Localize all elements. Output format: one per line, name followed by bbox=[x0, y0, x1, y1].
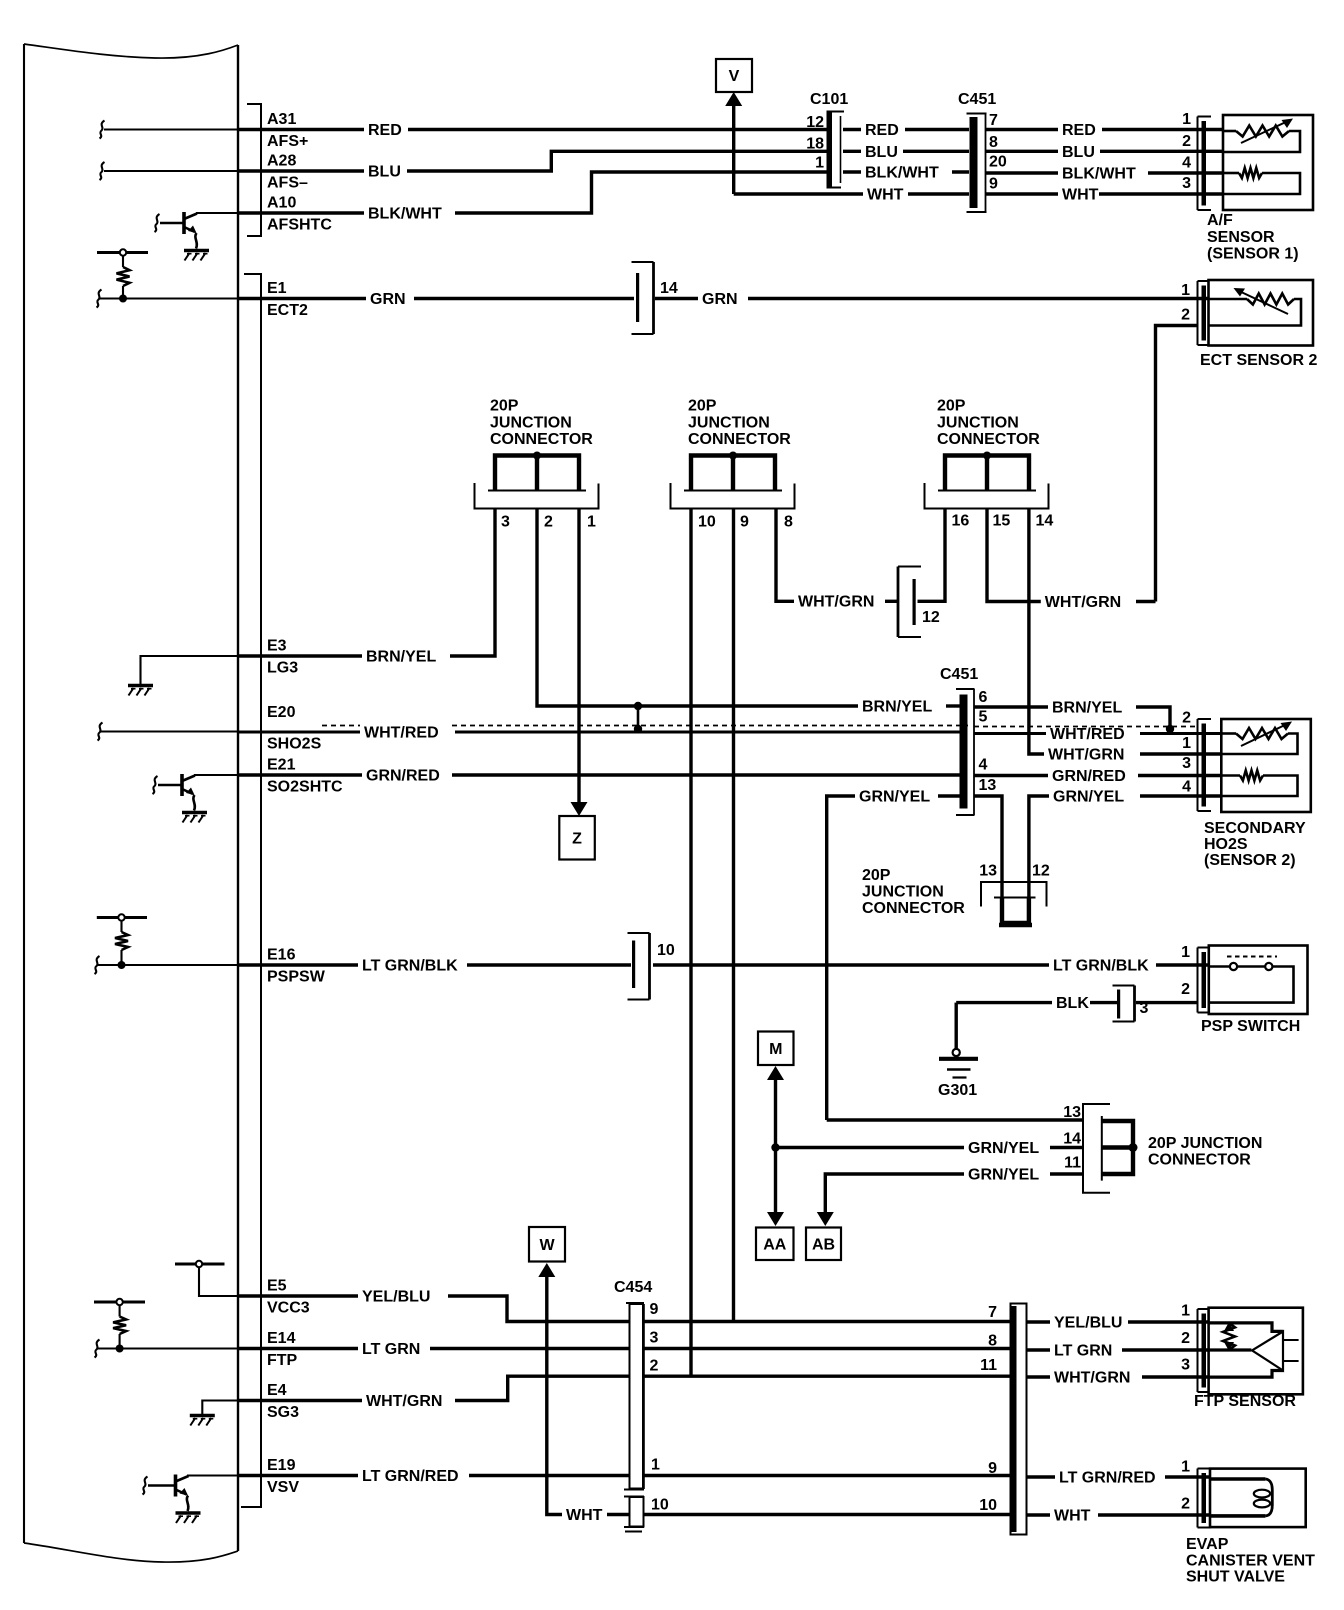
svg-text:2: 2 bbox=[1182, 710, 1191, 727]
svg-text:20P: 20P bbox=[937, 398, 966, 415]
svg-text:13: 13 bbox=[979, 863, 997, 880]
PSP switch contacts bbox=[1227, 956, 1277, 958]
svg-text:E3: E3 bbox=[267, 638, 287, 655]
connector 12 inline bbox=[897, 567, 900, 638]
wire W down to WHT row bbox=[547, 1275, 562, 1515]
svg-text:EVAP: EVAP bbox=[1186, 1536, 1229, 1553]
svg-text:C454: C454 bbox=[614, 1279, 652, 1296]
svg-text:E20: E20 bbox=[267, 704, 296, 721]
transistor Q1 (AFSHTC driver) bbox=[155, 214, 160, 232]
wire A31 internal bbox=[104, 128, 238, 130]
FTP internal rails and resistor bbox=[1209, 1323, 1283, 1332]
A/F sensor box bbox=[1223, 115, 1313, 210]
connector bracket ECT sensor 2 bbox=[1197, 281, 1199, 345]
wire A28 BLU with jog up to C101 pin 18 bbox=[239, 169, 365, 172]
svg-text:SHO2S: SHO2S bbox=[267, 736, 322, 753]
svg-text:BRN/YEL: BRN/YEL bbox=[862, 699, 932, 716]
svg-text:ECT2: ECT2 bbox=[267, 302, 308, 319]
svg-text:8: 8 bbox=[784, 514, 793, 531]
20P junction connector inverted bus bbox=[1002, 898, 1029, 924]
wire E19 LT GRN/RED bbox=[239, 1474, 359, 1477]
wire E3 BRN/YEL up to JC1 pin 3 bbox=[239, 654, 363, 657]
20P junction connector JC3 bbox=[945, 456, 1029, 490]
wire down to G301 bbox=[955, 1003, 958, 1049]
svg-text:2: 2 bbox=[1181, 981, 1190, 998]
FTP sensor box bbox=[1209, 1308, 1303, 1395]
ground wire E3 internal bbox=[141, 656, 239, 684]
wire LT GRN/BLK to PSP switch pin 1 bbox=[653, 963, 1049, 966]
svg-text:15: 15 bbox=[993, 513, 1011, 530]
svg-text:8: 8 bbox=[989, 134, 998, 151]
node AA reference box bbox=[756, 1228, 794, 1261]
svg-text:E14: E14 bbox=[267, 1330, 296, 1347]
svg-text:E4: E4 bbox=[267, 1382, 287, 1399]
connector bracket EVAP bbox=[1197, 1469, 1199, 1528]
svg-text:4: 4 bbox=[1182, 779, 1191, 796]
shield dashed line bbox=[452, 725, 968, 727]
svg-text:20P: 20P bbox=[862, 867, 891, 884]
svg-text:SHUT VALVE: SHUT VALVE bbox=[1186, 1569, 1285, 1586]
svg-text:M: M bbox=[769, 1041, 782, 1058]
svg-text:VSV: VSV bbox=[267, 1479, 299, 1496]
svg-text:SO2SHTC: SO2SHTC bbox=[267, 779, 343, 796]
svg-text:WHT/RED: WHT/RED bbox=[364, 725, 439, 742]
EVAP solenoid coil bbox=[1210, 1477, 1265, 1481]
svg-text:12: 12 bbox=[1032, 863, 1050, 880]
wire WHT row to C451 pin 9 bbox=[734, 192, 863, 195]
svg-text:GRN/YEL: GRN/YEL bbox=[968, 1140, 1039, 1157]
svg-text:RED: RED bbox=[368, 122, 402, 139]
junction dot E14 bbox=[116, 1345, 124, 1353]
svg-text:WHT/GRN: WHT/GRN bbox=[366, 1393, 442, 1410]
wire E5 YEL/BLU with jog down bbox=[239, 1294, 359, 1297]
svg-text:WHT/GRN: WHT/GRN bbox=[798, 594, 874, 611]
wire RED C101-C451 bbox=[843, 128, 861, 131]
svg-text:BLK/WHT: BLK/WHT bbox=[865, 165, 939, 182]
svg-text:JUNCTION: JUNCTION bbox=[688, 415, 770, 432]
svg-text:WHT/GRN: WHT/GRN bbox=[1045, 594, 1121, 611]
wire PSP pin 2 BLK bbox=[1136, 1001, 1198, 1004]
svg-text:BLK/WHT: BLK/WHT bbox=[1062, 166, 1136, 183]
svg-text:1: 1 bbox=[1181, 944, 1190, 961]
svg-text:14: 14 bbox=[660, 280, 678, 297]
wire A10 BLK/WHT with jog up to C101 pin 1 bbox=[239, 211, 365, 214]
wire LT GRN/RED row through C454 pin 1 bbox=[644, 1474, 1011, 1477]
svg-text:4: 4 bbox=[1182, 155, 1191, 172]
wire connector 12 to JC3 pin 16 bbox=[918, 509, 946, 602]
svg-text:1: 1 bbox=[1181, 1459, 1190, 1476]
svg-text:5: 5 bbox=[979, 709, 988, 726]
junction dot bbox=[634, 702, 642, 710]
svg-text:20P: 20P bbox=[688, 398, 717, 415]
svg-text:2: 2 bbox=[544, 514, 553, 531]
svg-text:20P: 20P bbox=[490, 398, 519, 415]
shield dashed segment bbox=[322, 725, 360, 727]
svg-text:BLK: BLK bbox=[1056, 995, 1089, 1012]
svg-text:AFSHTC: AFSHTC bbox=[267, 217, 332, 234]
wire WHT/GRN from JC3 pin 14 to HO2S pin 1 bbox=[1029, 509, 1044, 755]
wire ECT pin 2 down to WHT/GRN row bbox=[1156, 326, 1199, 602]
svg-text:SENSOR: SENSOR bbox=[1207, 229, 1275, 246]
wire E1 GRN bbox=[239, 297, 367, 300]
ECM/PCM block left border bbox=[23, 44, 25, 1543]
transistor Q2 (SO2SHTC driver) bbox=[153, 776, 158, 794]
ground symbol E4 bbox=[190, 1414, 215, 1418]
wire M to AA bbox=[774, 1078, 777, 1214]
connector bracket PSP switch bbox=[1197, 948, 1199, 1013]
20P junction connector JC1 bbox=[495, 456, 579, 490]
right 20P junction connector housing bbox=[1083, 1104, 1110, 1193]
wire WHT/GRN row through C454 pin 2 bbox=[644, 1374, 1011, 1377]
arrow down into AA bbox=[767, 1212, 784, 1226]
svg-text:1: 1 bbox=[651, 1457, 660, 1474]
svg-text:GRN/RED: GRN/RED bbox=[1052, 768, 1126, 785]
svg-text:JUNCTION: JUNCTION bbox=[937, 415, 1019, 432]
svg-text:YEL/BLU: YEL/BLU bbox=[1054, 1315, 1122, 1332]
svg-text:16: 16 bbox=[952, 513, 970, 530]
node V reference box bbox=[716, 59, 752, 92]
svg-text:RED: RED bbox=[1062, 122, 1096, 139]
ECT sensor 2 box bbox=[1209, 280, 1314, 346]
PSP switch box bbox=[1209, 946, 1308, 1015]
wire E4 WHT/GRN with jog up bbox=[239, 1399, 363, 1402]
arrow up into W bbox=[538, 1263, 555, 1277]
svg-text:BLU: BLU bbox=[865, 144, 898, 161]
connector C454 pin 10 piece bbox=[630, 1497, 644, 1527]
connector bracket A-pin group bbox=[247, 104, 261, 236]
svg-text:FTP SENSOR: FTP SENSOR bbox=[1194, 1393, 1296, 1410]
svg-text:WHT/RED: WHT/RED bbox=[1050, 726, 1125, 743]
ground wire E4 internal bbox=[202, 1401, 238, 1415]
connector 14 inline bbox=[652, 262, 655, 334]
wire Q1 collector to pin A10 bbox=[196, 212, 238, 214]
svg-text:CONNECTOR: CONNECTOR bbox=[937, 431, 1040, 448]
wire GRN/YEL from C451 pin 13 to left and down bbox=[938, 794, 961, 797]
wire BLU C101-C451 bbox=[843, 150, 861, 153]
svg-text:3: 3 bbox=[650, 1330, 659, 1347]
svg-text:WHT/GRN: WHT/GRN bbox=[1054, 1370, 1130, 1387]
svg-text:W: W bbox=[539, 1237, 555, 1254]
wire E16 LT GRN/BLK bbox=[239, 963, 359, 966]
junction dot bbox=[634, 725, 642, 733]
connector 10 inline bbox=[648, 933, 651, 1000]
svg-text:A10: A10 bbox=[267, 195, 296, 212]
svg-text:WHT: WHT bbox=[1054, 1508, 1091, 1525]
ground G301 bbox=[953, 1049, 960, 1056]
svg-text:AB: AB bbox=[812, 1236, 835, 1253]
wire GRN/YEL right of C451 to 20P JC pin 13 bbox=[974, 796, 1002, 897]
20P junction connector inverted housing bbox=[981, 882, 1047, 907]
svg-text:AFS+: AFS+ bbox=[267, 133, 308, 150]
svg-text:1: 1 bbox=[1181, 1303, 1190, 1320]
svg-text:JUNCTION: JUNCTION bbox=[490, 415, 572, 432]
svg-text:LT GRN/RED: LT GRN/RED bbox=[1059, 1470, 1156, 1487]
wire RED to A/F pin 1 bbox=[986, 128, 1058, 131]
wire WHT to EVAP pin 2 bbox=[1027, 1513, 1051, 1516]
svg-text:20P JUNCTION: 20P JUNCTION bbox=[1148, 1135, 1262, 1152]
connector 3 inline bbox=[1133, 986, 1136, 1022]
svg-text:11: 11 bbox=[1064, 1155, 1081, 1172]
svg-text:1: 1 bbox=[1181, 282, 1190, 299]
wire BLU to A/F pin 2 bbox=[986, 150, 1058, 153]
svg-text:9: 9 bbox=[989, 176, 998, 193]
svg-text:E1: E1 bbox=[267, 280, 287, 297]
svg-text:6: 6 bbox=[979, 689, 988, 706]
wire WHT/GRN to FTP pin 3 bbox=[1027, 1375, 1051, 1378]
svg-text:12: 12 bbox=[922, 609, 940, 626]
svg-text:G301: G301 bbox=[938, 1082, 977, 1099]
wire JC1 pin 1 down to Z bbox=[577, 509, 580, 803]
svg-text:LT GRN/RED: LT GRN/RED bbox=[362, 1468, 459, 1485]
wire WHT/RED to HO2S pin 2 bbox=[974, 732, 1046, 735]
svg-text:7: 7 bbox=[989, 112, 998, 129]
svg-text:3: 3 bbox=[1182, 175, 1191, 192]
connector bracket E-pin group bbox=[241, 274, 261, 1507]
svg-text:SG3: SG3 bbox=[267, 1404, 299, 1421]
svg-text:1: 1 bbox=[1182, 111, 1191, 128]
ECM/PCM block torn top edge bbox=[24, 44, 238, 58]
svg-text:14: 14 bbox=[1036, 513, 1054, 530]
svg-text:BLK/WHT: BLK/WHT bbox=[368, 206, 442, 223]
svg-text:CONNECTOR: CONNECTOR bbox=[862, 900, 965, 917]
wire E20 WHT/RED bbox=[239, 731, 361, 734]
svg-text:(SENSOR 1): (SENSOR 1) bbox=[1207, 246, 1299, 263]
junction dot E16 bbox=[118, 961, 126, 969]
svg-text:CONNECTOR: CONNECTOR bbox=[1148, 1152, 1251, 1169]
node AB reference box bbox=[806, 1228, 841, 1261]
connector bracket A/F sensor bbox=[1197, 117, 1199, 211]
wire BLK/WHT to A/F pin 4 bbox=[986, 171, 1058, 174]
svg-text:3: 3 bbox=[1140, 1000, 1149, 1017]
wire Q3 collector to pin E19 bbox=[187, 1474, 238, 1476]
svg-text:CANISTER VENT: CANISTER VENT bbox=[1186, 1553, 1315, 1570]
svg-text:2: 2 bbox=[1182, 133, 1191, 150]
svg-text:ECT SENSOR 2: ECT SENSOR 2 bbox=[1200, 352, 1317, 369]
svg-text:13: 13 bbox=[1063, 1104, 1081, 1121]
ECM/PCM block right border bbox=[237, 45, 239, 1551]
node W reference box bbox=[529, 1227, 565, 1262]
wire JC2 pin 8 to WHT/GRN + connector 12 bbox=[776, 509, 794, 602]
svg-text:2: 2 bbox=[650, 1358, 659, 1375]
svg-text:YEL/BLU: YEL/BLU bbox=[362, 1289, 430, 1306]
svg-text:10: 10 bbox=[651, 1497, 669, 1514]
wire E14 internal bbox=[97, 1347, 238, 1349]
svg-text:CONNECTOR: CONNECTOR bbox=[688, 431, 791, 448]
svg-text:20: 20 bbox=[989, 154, 1007, 171]
svg-text:LT GRN: LT GRN bbox=[1054, 1343, 1112, 1360]
node stub on E5 bbox=[175, 1263, 225, 1266]
wire GRN/YEL to HO2S pin 4 with drop to 20P JC pin 12 bbox=[1029, 796, 1049, 897]
A/F sensing element resistor bbox=[1223, 172, 1239, 175]
svg-text:AFS–: AFS– bbox=[267, 175, 308, 192]
connector bracket HO2S bbox=[1197, 719, 1199, 811]
wire BLK/WHT C101-C451 bbox=[843, 170, 861, 173]
ECM/PCM block torn bottom edge bbox=[24, 1543, 238, 1562]
svg-text:GRN: GRN bbox=[702, 291, 738, 308]
wire GRN/RED to HO2S pin 3 bbox=[974, 774, 1048, 777]
svg-text:BRN/YEL: BRN/YEL bbox=[366, 649, 436, 666]
svg-text:A28: A28 bbox=[267, 153, 296, 170]
wire LT GRN row through C454 pin 3 bbox=[644, 1347, 1011, 1350]
svg-text:WHT: WHT bbox=[1062, 187, 1099, 204]
svg-text:C451: C451 bbox=[940, 666, 978, 683]
arrow down into AB bbox=[817, 1212, 834, 1226]
wire LT GRN to FTP pin 2 bbox=[1027, 1348, 1051, 1351]
A/F heater element (variable resistor) bbox=[1223, 130, 1236, 133]
wire E14 LT GRN bbox=[239, 1347, 359, 1350]
svg-text:E5: E5 bbox=[267, 1278, 287, 1295]
junction dot shield-BRN/YEL bbox=[1166, 725, 1174, 733]
wire GRN/YEL to 20P JC pin 14 bbox=[776, 1146, 965, 1149]
svg-text:JUNCTION: JUNCTION bbox=[862, 884, 944, 901]
svg-text:LT GRN/BLK: LT GRN/BLK bbox=[362, 958, 458, 975]
svg-text:9: 9 bbox=[650, 1301, 659, 1318]
shield dashed line right of C451 bbox=[974, 726, 1196, 728]
resistor pull-up on E16 bbox=[97, 916, 147, 919]
svg-text:3: 3 bbox=[501, 514, 510, 531]
svg-text:9: 9 bbox=[740, 514, 749, 531]
wire E16 internal bbox=[97, 964, 238, 966]
resistor pull-up on E14 bbox=[94, 1301, 145, 1304]
svg-text:GRN/YEL: GRN/YEL bbox=[1053, 789, 1124, 806]
svg-text:E21: E21 bbox=[267, 757, 296, 774]
svg-text:RED: RED bbox=[865, 122, 899, 139]
svg-text:V: V bbox=[729, 68, 740, 85]
svg-text:PSPSW: PSPSW bbox=[267, 969, 326, 986]
svg-text:12: 12 bbox=[806, 114, 824, 131]
svg-text:10: 10 bbox=[979, 1497, 997, 1514]
svg-text:BLU: BLU bbox=[1062, 144, 1095, 161]
wire WHT to A/F pin 3 bbox=[986, 192, 1058, 195]
connector bracket FTP bbox=[1197, 1309, 1199, 1392]
svg-text:Z: Z bbox=[572, 830, 582, 847]
wire E21 GRN/RED bbox=[239, 773, 363, 776]
20P junction connector JC2 bbox=[691, 456, 775, 490]
svg-text:C451: C451 bbox=[958, 91, 996, 108]
arrow up into M bbox=[767, 1066, 784, 1080]
svg-text:WHT: WHT bbox=[566, 1507, 603, 1524]
svg-text:HO2S: HO2S bbox=[1204, 836, 1248, 853]
right 20P junction connector bus bbox=[1102, 1121, 1133, 1174]
svg-text:1: 1 bbox=[1182, 735, 1191, 752]
svg-text:8: 8 bbox=[988, 1333, 997, 1350]
svg-text:E19: E19 bbox=[267, 1457, 296, 1474]
FTP amplifier triangle bbox=[1252, 1332, 1283, 1371]
svg-text:A/F: A/F bbox=[1207, 212, 1233, 229]
svg-text:1: 1 bbox=[587, 514, 596, 531]
ground symbol E3 bbox=[128, 684, 153, 688]
svg-text:FTP: FTP bbox=[267, 1352, 298, 1369]
svg-text:SECONDARY: SECONDARY bbox=[1204, 820, 1306, 837]
wire GRN stub after connector 14 bbox=[655, 297, 698, 300]
svg-text:3: 3 bbox=[1181, 1357, 1190, 1374]
junction dot GRN/YEL branch bbox=[771, 1143, 779, 1151]
wire to 20P JC pin 13 bbox=[827, 1118, 1083, 1121]
wire JC1 pin 2 down and right (BRN/YEL) bbox=[537, 509, 858, 707]
svg-text:LG3: LG3 bbox=[267, 660, 298, 677]
right column connector bar bbox=[1011, 1304, 1027, 1535]
svg-text:GRN/YEL: GRN/YEL bbox=[859, 789, 930, 806]
svg-text:GRN/RED: GRN/RED bbox=[366, 768, 440, 785]
HO2S sensing resistor bbox=[1221, 774, 1240, 777]
svg-text:11: 11 bbox=[980, 1357, 997, 1374]
wire GRN/YEL to 20P JC pin 11 and AB bbox=[825, 1174, 964, 1214]
svg-text:E16: E16 bbox=[267, 947, 296, 964]
HO2S heater element (variable resistor) bbox=[1221, 732, 1236, 735]
svg-text:10: 10 bbox=[657, 942, 675, 959]
wire JC3 pin 15 to ECT pin 2 (WHT/GRN) bbox=[987, 509, 1041, 602]
svg-text:BLU: BLU bbox=[368, 164, 401, 181]
node M reference box bbox=[758, 1032, 794, 1066]
wire Q2 collector to pin E21 bbox=[194, 774, 238, 776]
svg-text:(SENSOR 2): (SENSOR 2) bbox=[1204, 852, 1296, 869]
junction dot E1 bbox=[119, 295, 127, 303]
svg-text:GRN/YEL: GRN/YEL bbox=[968, 1167, 1039, 1184]
wire YEL/BLU row through C454 pin 9 bbox=[644, 1320, 1011, 1323]
wire YEL/BLU to FTP pin 1 bbox=[1027, 1320, 1051, 1323]
svg-text:2: 2 bbox=[1181, 1496, 1190, 1513]
transistor Q3 (VSV driver) bbox=[143, 1477, 148, 1495]
svg-text:BRN/YEL: BRN/YEL bbox=[1052, 700, 1122, 717]
svg-text:WHT: WHT bbox=[867, 187, 904, 204]
svg-text:A31: A31 bbox=[267, 111, 296, 128]
resistor pull-up on E1 bbox=[97, 251, 148, 254]
svg-text:3: 3 bbox=[1182, 755, 1191, 772]
node Z reference box bbox=[559, 816, 595, 860]
secondary HO2S box bbox=[1221, 719, 1311, 812]
wire A31 RED to C101 pin 12 bbox=[239, 128, 365, 131]
svg-text:2: 2 bbox=[1181, 1330, 1190, 1347]
svg-text:10: 10 bbox=[698, 514, 716, 531]
svg-text:GRN: GRN bbox=[370, 291, 406, 308]
wire JC2 pin 9 down to YEL/BLU row bbox=[732, 509, 735, 1322]
svg-text:CONNECTOR: CONNECTOR bbox=[490, 431, 593, 448]
ECT thermistor bbox=[1209, 298, 1248, 301]
svg-text:LT GRN: LT GRN bbox=[362, 1341, 420, 1358]
svg-text:VCC3: VCC3 bbox=[267, 1300, 310, 1317]
svg-text:AA: AA bbox=[763, 1236, 787, 1253]
wire E20 internal bbox=[100, 730, 238, 732]
svg-text:1: 1 bbox=[815, 155, 824, 172]
wire BRN/YEL right of C451 with drop to shield bbox=[974, 705, 1048, 708]
svg-text:7: 7 bbox=[988, 1304, 997, 1321]
wire A28 internal bbox=[104, 170, 238, 172]
wire WHT vertical to V bbox=[732, 103, 735, 194]
svg-text:PSP SWITCH: PSP SWITCH bbox=[1201, 1018, 1300, 1035]
EVAP valve box bbox=[1210, 1469, 1306, 1528]
svg-text:C101: C101 bbox=[810, 91, 848, 108]
svg-text:14: 14 bbox=[1063, 1131, 1081, 1148]
svg-text:WHT/GRN: WHT/GRN bbox=[1048, 747, 1124, 764]
svg-text:2: 2 bbox=[1181, 307, 1190, 324]
wire WHT row through C454 pin 10 bbox=[644, 1513, 1012, 1516]
svg-text:18: 18 bbox=[806, 136, 824, 153]
svg-text:4: 4 bbox=[979, 757, 988, 774]
shield drain link bbox=[637, 706, 640, 729]
svg-text:9: 9 bbox=[988, 1460, 997, 1477]
wire LT GRN/RED to EVAP pin 1 bbox=[1027, 1475, 1056, 1478]
wire E1 internal bbox=[99, 297, 238, 299]
svg-text:LT GRN/BLK: LT GRN/BLK bbox=[1053, 958, 1149, 975]
wire JC2 pin 10 down to WHT/GRN row bbox=[689, 509, 692, 1377]
svg-text:13: 13 bbox=[979, 777, 997, 794]
